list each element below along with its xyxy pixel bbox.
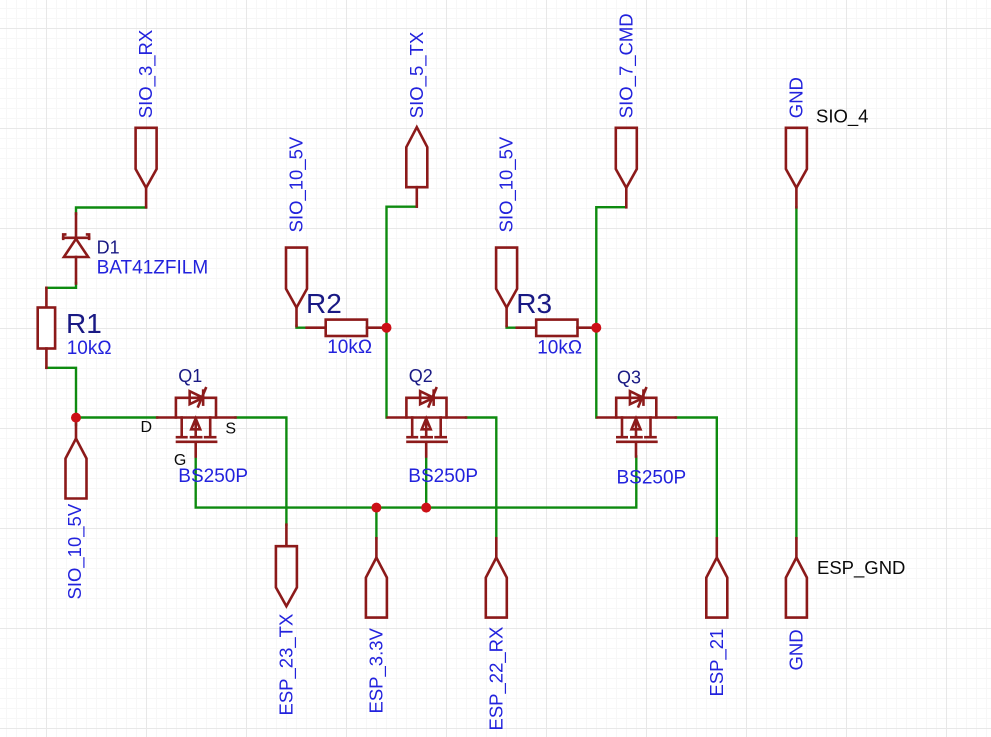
wire Q2 gate to bus	[425, 457, 427, 508]
svg-text:Q2: Q2	[409, 366, 433, 386]
resistor R2	[307, 320, 387, 336]
wire SIO_7_CMD to R3 node and Q3 drain	[596, 207, 626, 417]
transistor Q2	[388, 388, 466, 456]
wire Q1 source to ESP_23_TX	[236, 418, 287, 525]
transistor Q3	[598, 388, 676, 456]
junction node R2 / SIO_5_TX / Q2 drain	[382, 323, 392, 333]
wire Q3 source to ESP_21	[676, 418, 717, 539]
wire GND to ESP_GND	[795, 207, 797, 538]
wire Q2 source to ESP_22_RX	[466, 418, 496, 539]
svg-text:ESP_21: ESP_21	[706, 629, 728, 697]
svg-text:GND: GND	[786, 77, 807, 118]
port ESP_GND	[786, 538, 807, 617]
wire bus to ESP_3.3V	[375, 508, 377, 539]
svg-text:10kΩ: 10kΩ	[327, 337, 372, 358]
port SIO_10_5V left	[66, 419, 87, 499]
svg-text:R1: R1	[66, 308, 102, 339]
junction node SIO_10_5V / R1 / Q1 drain	[71, 413, 81, 423]
svg-text:SIO_10_5V: SIO_10_5V	[496, 136, 518, 232]
svg-text:Q1: Q1	[178, 366, 202, 386]
resistor R1	[38, 288, 55, 368]
svg-text:BAT41ZFILM: BAT41ZFILM	[97, 258, 209, 279]
port ESP_23_TX	[276, 525, 297, 607]
svg-text:ESP_22_RX: ESP_22_RX	[485, 627, 507, 731]
svg-text:10kΩ: 10kΩ	[537, 337, 582, 358]
wire SIO_10_5V to R3	[507, 326, 517, 327]
svg-text:D1: D1	[97, 237, 120, 257]
wire R1 to node SIO_10_5V	[46, 368, 76, 418]
svg-text:Q3: Q3	[617, 368, 641, 388]
svg-text:R3: R3	[516, 288, 552, 319]
svg-text:BS250P: BS250P	[408, 466, 478, 487]
svg-text:BS250P: BS250P	[617, 468, 687, 489]
svg-text:S: S	[225, 421, 236, 438]
svg-text:R2: R2	[306, 288, 342, 319]
svg-text:GND: GND	[785, 629, 806, 670]
svg-text:SIO_3_RX: SIO_3_RX	[135, 30, 157, 118]
svg-text:SIO_4: SIO_4	[816, 105, 868, 127]
junction node bus / Q2 gate	[421, 503, 431, 513]
wire node to SIO_10_5V flag	[75, 418, 77, 425]
wire gate bus Q1-Q3	[196, 457, 637, 508]
port ESP_3.3V	[366, 538, 387, 617]
svg-text:ESP_3.3V: ESP_3.3V	[365, 627, 387, 713]
resistor R3	[517, 320, 597, 336]
port SIO_10_5V middle	[286, 248, 307, 326]
junction node bus / ESP_3.3V	[371, 503, 381, 513]
wire D1 to R1	[46, 283, 76, 288]
port GND top	[786, 128, 807, 208]
svg-text:SIO_7_CMD: SIO_7_CMD	[615, 13, 637, 118]
svg-text:SIO_10_5V: SIO_10_5V	[286, 136, 308, 232]
port SIO_3_RX	[136, 128, 157, 208]
wire SIO_3_RX to D1	[76, 208, 146, 215]
wire SIO_5_TX to R2 node and Q2 drain	[387, 207, 417, 418]
wire node to Q1 drain	[76, 416, 157, 418]
svg-text:ESP_23_TX: ESP_23_TX	[275, 614, 297, 716]
port SIO_7_CMD	[616, 128, 637, 208]
port ESP_21	[706, 538, 727, 617]
diode D1	[63, 214, 89, 284]
wire SIO_10_5V to R2	[297, 326, 307, 328]
svg-text:ESP_GND: ESP_GND	[817, 557, 905, 579]
svg-text:10kΩ: 10kΩ	[67, 338, 112, 359]
junction node R3 / SIO_7_CMD / Q3 drain	[591, 323, 601, 333]
port ESP_22_RX	[486, 538, 507, 617]
port SIO_10_5V right	[496, 248, 517, 326]
svg-text:D: D	[141, 419, 153, 436]
transistor Q1	[157, 388, 235, 456]
svg-text:SIO_10_5V: SIO_10_5V	[64, 503, 86, 599]
svg-text:SIO_5_TX: SIO_5_TX	[406, 32, 428, 118]
port SIO_5_TX	[406, 127, 427, 206]
svg-text:BS250P: BS250P	[178, 466, 248, 487]
svg-text:G: G	[174, 452, 186, 469]
